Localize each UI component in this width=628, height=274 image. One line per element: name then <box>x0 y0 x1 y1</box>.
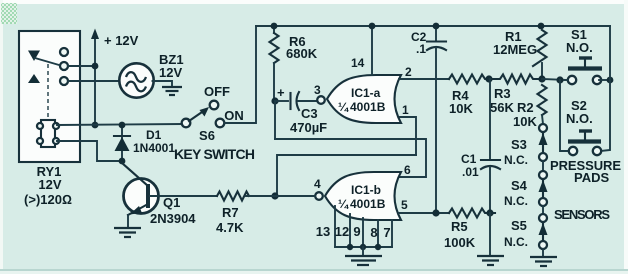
svg-text:N.C.: N.C. <box>504 153 528 167</box>
label S3 N.C. <box>504 137 528 167</box>
svg-text:(>)120Ω: (>)120Ω <box>24 192 72 207</box>
node dot coil/+12V <box>92 122 99 129</box>
svg-text:7: 7 <box>383 225 390 240</box>
svg-text:N.O.: N.O. <box>566 111 593 126</box>
label IC1-b 1/4 4001B <box>338 183 386 211</box>
svg-text:6: 6 <box>404 163 411 177</box>
svg-text:R3: R3 <box>494 86 511 101</box>
svg-text:5: 5 <box>401 198 408 212</box>
label IC1-a 1/4 4001B <box>338 86 386 114</box>
wire pin5 line <box>399 212 449 214</box>
svg-text:C1: C1 <box>461 152 477 166</box>
transistor Q1 2N3904 <box>122 163 159 227</box>
label OFF ON S6 KEY SWITCH <box>174 84 255 162</box>
label S4 N.C. <box>504 178 528 208</box>
label R7 4.7K <box>216 205 244 235</box>
label BZ1 12V <box>159 52 184 80</box>
svg-text:14: 14 <box>351 56 365 70</box>
pin 4 label <box>314 177 321 191</box>
switch S3 N.C. <box>539 124 548 161</box>
svg-text:IC1-a: IC1-a <box>351 86 381 100</box>
relay contact circle top <box>60 48 68 56</box>
wire S3-S4 <box>542 161 544 171</box>
relay RY1 box <box>19 31 80 162</box>
node dot rail/C2 <box>433 23 440 30</box>
svg-text:4001B: 4001B <box>350 197 386 211</box>
label R6 680K <box>286 34 318 61</box>
svg-text:N.C.: N.C. <box>504 194 528 208</box>
ground (IC1-b pins) <box>345 247 382 265</box>
node dot R5/C1/ground <box>486 209 493 216</box>
wire S5 to ground <box>542 249 544 256</box>
label C1 .01 <box>461 152 479 179</box>
wire S6 ON to top rail <box>225 26 256 123</box>
node dot rail/pin14 <box>369 23 376 30</box>
resistor R4 10K <box>449 75 493 84</box>
relay triangle lower <box>28 74 40 83</box>
top rail <box>256 25 610 27</box>
pin 14 label <box>351 56 365 70</box>
svg-text:N.C.: N.C. <box>504 235 528 249</box>
svg-text:S5: S5 <box>511 218 527 233</box>
svg-text:N.O.: N.O. <box>566 40 593 55</box>
node dot D1 top <box>119 122 126 129</box>
svg-text:12V: 12V <box>159 65 182 80</box>
pin 5 label <box>401 198 408 212</box>
svg-text:10K: 10K <box>449 101 473 116</box>
label C2 .1 <box>411 30 427 56</box>
node dot D1 bottom <box>119 158 126 165</box>
wire S2 branch <box>560 80 569 151</box>
wire coil bottom to D1 node <box>57 141 122 161</box>
svg-text:Q1: Q1 <box>163 195 180 210</box>
resistor R7 4.7K <box>217 192 249 201</box>
relay contact circle bottom <box>60 77 68 85</box>
node dot rail/R1 <box>538 23 545 30</box>
resistor R3 56K <box>489 75 542 84</box>
wire C3 node down <box>274 101 276 139</box>
pin labels 13 12 9 8 7 <box>316 224 391 240</box>
svg-text:2N3904: 2N3904 <box>150 211 196 226</box>
svg-text:8: 8 <box>370 225 377 240</box>
svg-text:.01: .01 <box>462 165 479 179</box>
svg-text:470µF: 470µF <box>290 120 327 135</box>
relay armature wire <box>35 58 59 65</box>
svg-text:56K: 56K <box>490 100 514 115</box>
svg-text:4: 4 <box>314 177 321 191</box>
switch S5 N.C. <box>539 214 548 249</box>
resistor R1 12MEG <box>533 30 547 79</box>
node dot C3/R6 <box>271 97 278 104</box>
ground (buzzer) <box>162 87 182 95</box>
capacitor C1 .01 <box>481 79 500 213</box>
wire Q1 base to R7 <box>150 195 217 197</box>
pin 14 wire <box>371 26 373 75</box>
svg-text:S6: S6 <box>199 128 215 143</box>
wire contact2 to +12V line <box>68 65 95 67</box>
svg-text:R2: R2 <box>517 100 534 115</box>
svg-text:KEY SWITCH: KEY SWITCH <box>174 146 255 162</box>
label R1 12MEG <box>493 29 537 57</box>
node dot contact2/+12V <box>92 63 99 70</box>
node dot S1/S2 branch <box>556 76 563 83</box>
svg-text:¼: ¼ <box>338 100 349 114</box>
label R5 100K <box>444 219 476 250</box>
svg-text:D1: D1 <box>146 128 162 142</box>
diode D1 1N4001 <box>114 125 130 161</box>
wire coil top to S6 <box>57 124 182 125</box>
label C3 470uF <box>290 106 327 135</box>
key switch S6 <box>182 101 225 128</box>
feedback wire C3 node to pin6 <box>275 139 426 177</box>
svg-text:IC1-b: IC1-b <box>351 183 381 197</box>
svg-text:S4: S4 <box>511 178 528 193</box>
svg-text:1N4001: 1N4001 <box>133 141 175 155</box>
ground (Q1 emitter) <box>114 228 141 237</box>
svg-text:4001B: 4001B <box>350 100 386 114</box>
svg-text:3: 3 <box>314 83 321 97</box>
capacitor C3 470uF <box>275 85 316 110</box>
capacitor C2 .1 <box>427 26 446 213</box>
pin 3 label <box>314 83 321 97</box>
label Q1 2N3904 <box>150 195 196 226</box>
svg-text:C3: C3 <box>301 106 318 121</box>
wire pin4 <box>275 195 315 197</box>
node dot R1/R2/R3 <box>538 75 545 82</box>
node dot rail/R6 <box>271 23 278 30</box>
wire R7 to pin4 node <box>246 195 275 197</box>
label S5 N.C. <box>504 218 528 249</box>
pushbutton S2 N.O. <box>566 98 601 155</box>
wire S4-S5 <box>542 206 544 214</box>
label R2 10K <box>513 100 537 129</box>
svg-text:OFF: OFF <box>204 84 230 99</box>
pin 1 label <box>402 103 409 117</box>
feedback wire to pin4 node <box>277 155 416 196</box>
label R4 10K <box>449 88 473 116</box>
wire buzzer to ground <box>153 81 173 86</box>
label R3 56K <box>490 86 514 115</box>
resistor R5 100K <box>449 209 495 218</box>
svg-text:PADS: PADS <box>574 170 609 185</box>
right rail <box>601 26 610 151</box>
node dots on comb bus <box>347 244 381 250</box>
resistor R6 680K <box>270 26 279 101</box>
pin 2 label <box>405 65 412 79</box>
svg-text:13: 13 <box>316 224 330 239</box>
ground (S5) <box>530 257 557 266</box>
label D1 1N4001 <box>133 128 175 155</box>
svg-text:4.7K: 4.7K <box>216 220 244 235</box>
svg-text:S3: S3 <box>511 137 527 152</box>
svg-text:12MEG: 12MEG <box>493 42 537 57</box>
pin 6 label <box>404 163 411 177</box>
wire pin 2 line <box>399 78 449 80</box>
relay armature triangle upper <box>28 51 40 62</box>
wire contact3 to buzzer <box>68 80 120 82</box>
label PRESSURE PADS <box>550 158 621 185</box>
svg-text:1: 1 <box>402 103 409 117</box>
feedback wire pin1 down <box>400 117 416 155</box>
buzzer BZ1 <box>119 63 153 97</box>
svg-text:9: 9 <box>353 224 360 239</box>
resistor R2 10K <box>538 85 547 124</box>
svg-text:R7: R7 <box>222 205 239 220</box>
svg-text:12: 12 <box>335 224 349 239</box>
node dot S1/right rail <box>607 77 614 84</box>
relay coil <box>37 120 59 147</box>
svg-text:.1: .1 <box>416 42 426 56</box>
wire R2 node to S1 node <box>542 79 568 80</box>
pushbutton S1 N.O. <box>564 27 610 84</box>
svg-text:¼: ¼ <box>338 197 349 211</box>
node dot C2/pin5 <box>432 209 439 216</box>
op-amp U2 gate IC1-b <box>315 172 401 220</box>
svg-text:+ 12V: + 12V <box>104 33 139 48</box>
relay contact circle middle <box>60 62 68 70</box>
label +12V <box>104 33 139 48</box>
relay dashed actuator line <box>47 64 49 120</box>
svg-text:680K: 680K <box>286 46 318 61</box>
svg-text:12V: 12V <box>38 177 61 192</box>
label SENSORS <box>554 207 610 222</box>
svg-text:10K: 10K <box>513 114 537 129</box>
svg-text:+: + <box>277 85 285 100</box>
svg-text:R5: R5 <box>451 219 468 234</box>
svg-text:SENSORS: SENSORS <box>554 207 610 222</box>
svg-text:ON: ON <box>224 108 244 123</box>
svg-text:100K: 100K <box>444 235 476 250</box>
node dot R4/R3/C1 <box>485 75 492 82</box>
+12V supply arrow <box>91 29 99 126</box>
node dot pin4 <box>271 192 278 199</box>
label RY1 12V (>)120ohm <box>24 164 72 207</box>
switch S4 N.C. <box>539 171 548 206</box>
svg-text:2: 2 <box>405 65 412 79</box>
op-amp U1 gate IC1-a <box>317 75 401 123</box>
ground (R5/C1) <box>477 213 504 265</box>
IC1-b bottom pin comb 13 12 9 8 7 <box>335 206 392 247</box>
